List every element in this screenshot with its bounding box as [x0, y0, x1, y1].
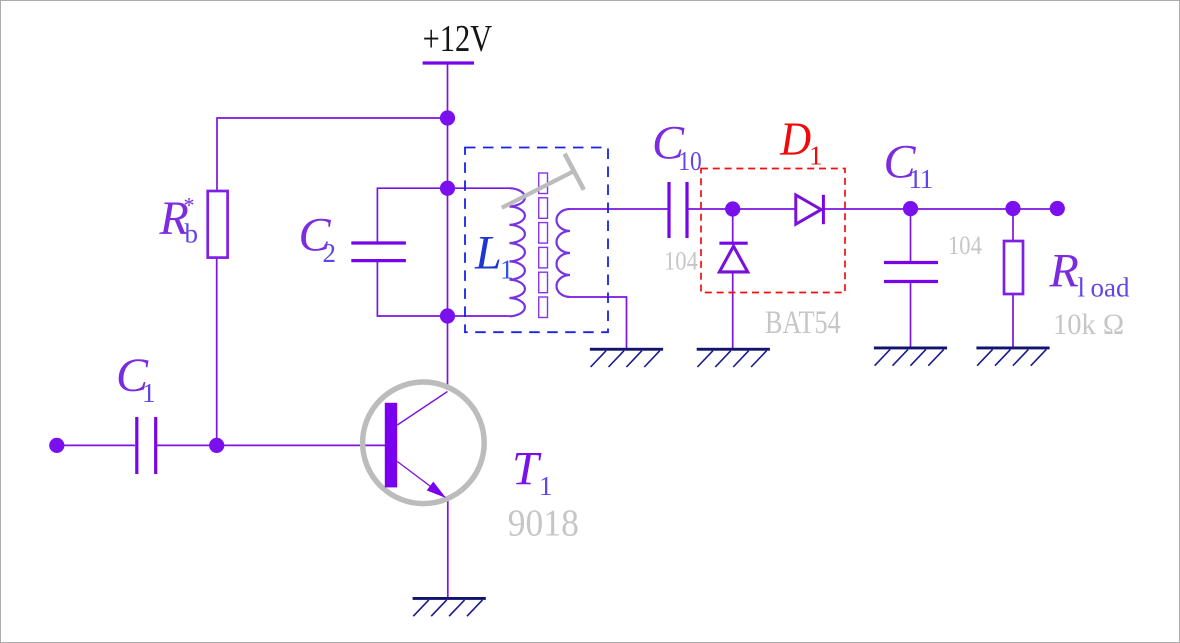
svg-text:10: 10 [678, 147, 701, 177]
svg-text:T: T [512, 443, 542, 496]
svg-text:L: L [474, 227, 502, 280]
svg-text:10k Ω: 10k Ω [1053, 308, 1124, 341]
svg-text:1: 1 [809, 141, 823, 171]
svg-text:*: * [184, 193, 195, 218]
svg-text:104: 104 [664, 247, 698, 276]
svg-text:1: 1 [539, 471, 553, 501]
svg-text:104: 104 [948, 232, 982, 261]
svg-text:9018: 9018 [508, 501, 579, 543]
svg-text:b: b [185, 219, 199, 249]
svg-text:1: 1 [500, 255, 514, 285]
svg-text:+12V: +12V [423, 18, 493, 60]
svg-text:BAT54: BAT54 [765, 304, 841, 341]
svg-text:2: 2 [323, 238, 337, 268]
svg-text:R: R [1049, 245, 1079, 298]
svg-text:1: 1 [142, 378, 156, 408]
svg-text:D: D [779, 113, 811, 166]
svg-text:11: 11 [909, 164, 933, 194]
